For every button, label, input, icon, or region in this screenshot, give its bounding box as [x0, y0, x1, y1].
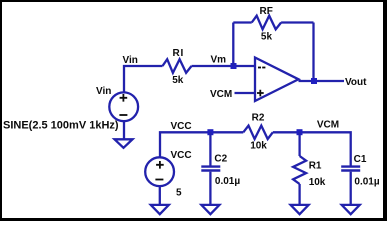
svg-text:0.01µ: 0.01µ [215, 176, 240, 187]
ground (C1) [342, 205, 360, 214]
node output junction [311, 78, 317, 84]
svg-text:R1: R1 [309, 160, 322, 171]
resistor RI [163, 59, 192, 73]
svg-text:5k: 5k [261, 32, 273, 43]
wire R2 to VCM corner and down to C1 [273, 132, 351, 165]
svg-text:VCC: VCC [171, 121, 192, 132]
resistor R2 [243, 126, 272, 139]
resistor RF [252, 16, 281, 30]
ground (R1) [291, 205, 309, 214]
border frame [0, 0, 387, 2]
op-amp inverting pin dashes [258, 67, 261, 69]
source VCC minus mark [155, 179, 163, 181]
svg-text:C2: C2 [214, 154, 227, 165]
wire VCC source to ground [159, 186, 161, 205]
wire op-amp output to Vout [299, 80, 345, 82]
resistor R1 [293, 156, 306, 184]
ground (Vin) [115, 139, 133, 148]
wire feedback right vertical [312, 23, 314, 82]
voltage source VCC circle [145, 157, 174, 186]
svg-text:5: 5 [176, 188, 182, 199]
node R1 junction [297, 129, 303, 135]
capacitor C1 [341, 167, 360, 171]
source VCC plus mark [156, 161, 164, 169]
svg-text:VCM: VCM [210, 89, 232, 100]
svg-text:Vin: Vin [96, 86, 111, 97]
svg-text:RF: RF [260, 6, 273, 17]
svg-text:VCC: VCC [171, 150, 192, 161]
svg-text:Vin: Vin [123, 55, 138, 66]
ground (VCC source) [151, 205, 169, 214]
wire R1 top [298, 132, 300, 156]
svg-text:10k: 10k [309, 177, 326, 188]
wire VCM to op-amp non-inverting input [235, 92, 256, 94]
wire feedback top right [281, 21, 313, 23]
source Vin minus mark [119, 114, 127, 116]
ground (C2) [201, 205, 219, 214]
svg-text:C1: C1 [354, 154, 367, 165]
wire C1 bottom [350, 172, 352, 205]
svg-text:R2: R2 [252, 113, 265, 124]
op-amp U1 [255, 58, 299, 102]
svg-text:SINE(2.5 100mV 1kHz): SINE(2.5 100mV 1kHz) [3, 120, 119, 132]
node C2 junction [207, 129, 213, 135]
wire VCC corner and rail to R2 [160, 132, 243, 157]
op-amp non-inverting pin plus [257, 90, 264, 97]
wire feedback top left [233, 21, 251, 23]
voltage source Vin circle [109, 92, 138, 121]
wire RI to op-amp inverting input [192, 65, 256, 67]
wire R1 bottom [298, 184, 300, 205]
wire Vin source to ground [123, 121, 125, 139]
wire C2 top [209, 132, 211, 165]
capacitor C2 [201, 167, 220, 171]
wire C2 bottom [209, 172, 211, 205]
svg-text:VCM: VCM [317, 119, 339, 130]
svg-text:RI: RI [173, 48, 185, 59]
svg-text:Vout: Vout [345, 77, 367, 88]
svg-text:10k: 10k [250, 140, 267, 151]
svg-text:5k: 5k [172, 75, 184, 86]
wire Vin corner to RI [124, 66, 163, 92]
svg-text:0.01µ: 0.01µ [354, 177, 379, 188]
node Vm junction [231, 63, 237, 69]
svg-text:Vm: Vm [211, 55, 227, 66]
source Vin plus mark [120, 94, 128, 102]
wire feedback left vertical [232, 23, 234, 67]
